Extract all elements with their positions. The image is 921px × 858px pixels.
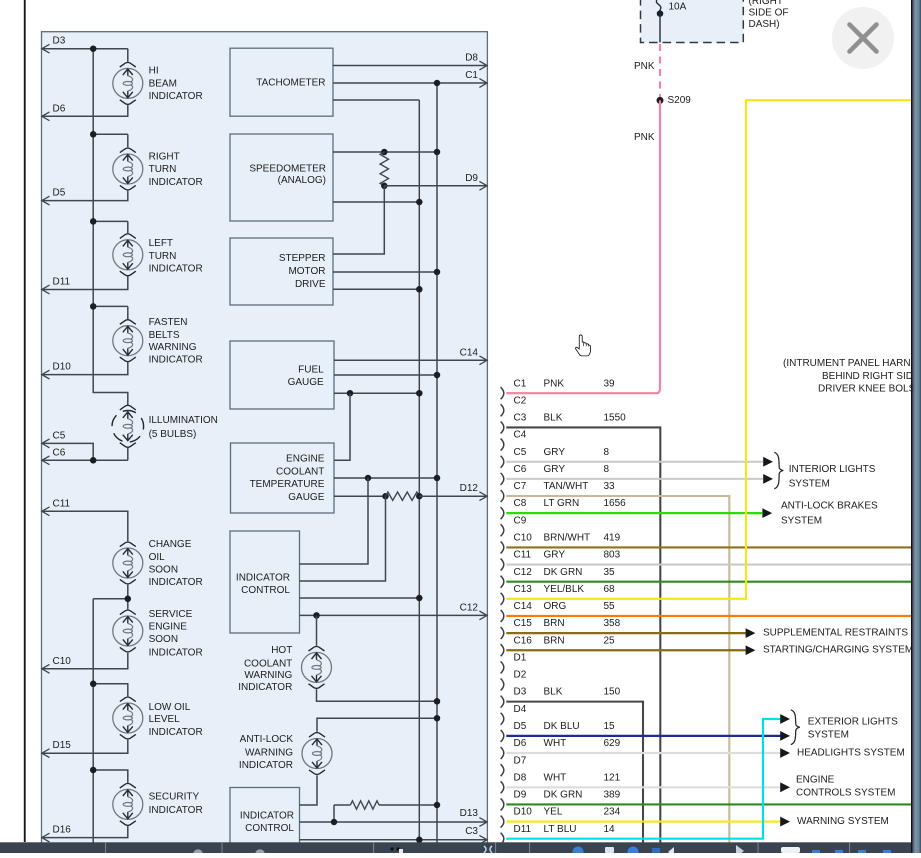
svg-text:INDICATOR: INDICATOR bbox=[238, 682, 292, 693]
wire CHANGE OIL bottom lead bbox=[127, 585, 129, 610]
svg-text:D6: D6 bbox=[53, 103, 66, 114]
svg-text:BELTS: BELTS bbox=[149, 330, 180, 341]
svg-text:STARTING/CHARGING SYSTEM: STARTING/CHARGING SYSTEM bbox=[763, 645, 913, 656]
svg-text:1550: 1550 bbox=[604, 413, 627, 424]
svg-text:D15: D15 bbox=[53, 740, 72, 751]
taskbar icon bbox=[193, 849, 203, 858]
svg-text:INDICATOR: INDICATOR bbox=[149, 648, 203, 659]
wire IC out1 bbox=[300, 478, 369, 564]
wire C12 row bbox=[300, 614, 488, 616]
wire C1 row bbox=[333, 82, 487, 84]
wire C14 row bbox=[334, 359, 487, 361]
lamp LEFT TURN INDICATOR bbox=[113, 234, 143, 276]
wire stepper mid bbox=[333, 271, 437, 273]
svg-text:OIL: OIL bbox=[149, 552, 166, 563]
wire anti-lock top lead bbox=[317, 718, 437, 732]
lamp SECURITY INDICATOR bbox=[113, 783, 143, 825]
wire SECURITY bottom lead / D16 row bbox=[42, 826, 128, 838]
svg-text:SYSTEM: SYSTEM bbox=[789, 478, 830, 489]
wire D9 row bbox=[384, 185, 487, 187]
wire D11 LT BLU bbox=[506, 719, 780, 839]
wire left bus bbox=[93, 49, 128, 405]
svg-text:D2: D2 bbox=[514, 670, 527, 681]
wire tach third bbox=[333, 99, 419, 101]
junction speedo/V2 bbox=[434, 149, 441, 156]
pin D10 connector bbox=[501, 807, 621, 828]
junction V2/C1 bbox=[434, 80, 441, 87]
wire D5 DK BLU bbox=[506, 735, 780, 737]
wire lamp 4 top lead bbox=[127, 306, 129, 319]
wire ECT upper bbox=[334, 477, 437, 479]
svg-text:YEL/BLK: YEL/BLK bbox=[544, 584, 585, 595]
wire lamp 1 bottom lead bbox=[42, 105, 128, 116]
lamp ILLUMINATION (5 bulbs) bbox=[112, 405, 144, 447]
svg-text:WARNING SYSTEM: WARNING SYSTEM bbox=[797, 816, 889, 827]
taskbar icon bbox=[652, 848, 660, 853]
svg-text:TEMPERATURE: TEMPERATURE bbox=[250, 479, 325, 490]
svg-text:CONTROL: CONTROL bbox=[245, 823, 294, 834]
svg-text:D1: D1 bbox=[514, 652, 527, 663]
taskbar icon bbox=[255, 849, 265, 858]
svg-text:(5 BULBS): (5 BULBS) bbox=[149, 429, 197, 440]
label ANTI-LOCK WARNING INDICATOR bbox=[239, 734, 293, 771]
wire lamp 2 bottom lead bbox=[42, 191, 128, 201]
svg-text:WARNING: WARNING bbox=[245, 748, 293, 759]
taskbar icon bbox=[484, 846, 492, 853]
junction antilock/V2 bbox=[434, 715, 441, 722]
pin C1 arrow bbox=[479, 79, 487, 88]
junction fuel/V2 bbox=[434, 372, 441, 379]
arrow to interior lights (C5) bbox=[763, 457, 773, 467]
arrow to warning system bbox=[780, 817, 790, 827]
wire C3 BLK bbox=[506, 427, 660, 842]
svg-text:ILLUMINATION: ILLUMINATION bbox=[149, 415, 218, 426]
wire fuel to ECT bbox=[335, 393, 351, 460]
svg-text:D10: D10 bbox=[53, 362, 72, 373]
svg-text:14: 14 bbox=[604, 824, 616, 835]
junction C5/C6 bbox=[90, 457, 97, 464]
pin D1 connector bbox=[501, 652, 527, 673]
svg-text:HOT: HOT bbox=[271, 645, 292, 656]
svg-text:D8: D8 bbox=[514, 772, 527, 783]
svg-text:SYSTEM: SYSTEM bbox=[781, 516, 822, 527]
svg-text:C9: C9 bbox=[514, 515, 527, 526]
pin C13 connector bbox=[501, 584, 615, 605]
svg-text:C5: C5 bbox=[514, 447, 527, 458]
wire C16 BRN bbox=[506, 649, 746, 651]
pin C12 connector bbox=[501, 567, 615, 588]
svg-text:LOW OIL: LOW OIL bbox=[149, 702, 191, 713]
label HOT COOLANT WARNING INDICATOR bbox=[238, 645, 292, 693]
wire speedometer upper bbox=[333, 151, 437, 153]
pin C7 connector bbox=[501, 481, 615, 502]
svg-text:629: 629 bbox=[604, 738, 621, 749]
wire D13 row bbox=[300, 821, 488, 823]
pin D3 arrow bbox=[42, 44, 50, 53]
svg-text:DK GRN: DK GRN bbox=[544, 790, 583, 801]
wire D6 WHT bbox=[506, 752, 780, 754]
wire D9 DK GRN bbox=[506, 803, 911, 805]
wire security row feed bbox=[93, 770, 128, 783]
arrow to exterior lights (D11) bbox=[780, 714, 790, 724]
junction hot-coolant tap bbox=[313, 612, 320, 619]
svg-text:D3: D3 bbox=[53, 36, 66, 47]
wire SERVICE bottom lead / C10 row bbox=[42, 653, 128, 669]
taskbar icon bbox=[835, 850, 843, 853]
svg-text:INDICATOR: INDICATOR bbox=[149, 577, 203, 588]
pin D5 connector bbox=[501, 721, 615, 742]
taskbar icon bbox=[668, 847, 674, 857]
svg-text:D6: D6 bbox=[514, 738, 527, 749]
wire C12 DK GRN bbox=[506, 581, 911, 583]
resistor R3 bbox=[350, 801, 379, 809]
wire C11 GRY bbox=[506, 563, 911, 565]
svg-text:D5: D5 bbox=[514, 721, 527, 732]
svg-text:DASH): DASH) bbox=[749, 19, 780, 30]
wire fuse lead bbox=[659, 14, 661, 43]
svg-text:GRY: GRY bbox=[544, 464, 566, 475]
svg-text:D12: D12 bbox=[460, 483, 479, 494]
arrow to headlights bbox=[780, 748, 790, 758]
wire PNK solid to C1 bbox=[506, 100, 660, 393]
svg-text:C12: C12 bbox=[460, 602, 479, 613]
pin C2 connector bbox=[501, 395, 527, 416]
label ANTI-LOCK BRAKES SYSTEM bbox=[781, 500, 878, 526]
svg-text:C14: C14 bbox=[514, 601, 533, 612]
taskbar separator bbox=[529, 842, 530, 853]
label lamp 3 text bbox=[149, 238, 203, 274]
instrument cluster panel bbox=[42, 32, 488, 853]
svg-text:389: 389 bbox=[604, 790, 621, 801]
pin C4 connector bbox=[501, 430, 527, 451]
svg-text:HI: HI bbox=[149, 66, 159, 77]
junction R3/V2 bbox=[434, 802, 441, 809]
svg-text:WARNING: WARNING bbox=[149, 342, 197, 353]
svg-text:GAUGE: GAUGE bbox=[288, 492, 324, 503]
svg-text:ORG: ORG bbox=[544, 601, 567, 612]
label LOW OIL LEVEL INDICATOR bbox=[149, 702, 203, 738]
pin C14 arrow bbox=[479, 356, 487, 365]
svg-text:C5: C5 bbox=[53, 431, 66, 442]
taskbar icon bbox=[883, 850, 891, 853]
pin C11 arrow bbox=[42, 507, 50, 516]
taskbar separator bbox=[495, 842, 496, 853]
pin D16 arrow bbox=[42, 833, 50, 842]
svg-text:SYSTEM: SYSTEM bbox=[808, 729, 849, 740]
svg-text:C6: C6 bbox=[53, 448, 66, 459]
svg-text:C6: C6 bbox=[514, 464, 527, 475]
label ILLUMINATION bbox=[149, 415, 218, 440]
svg-text:INDICATOR: INDICATOR bbox=[149, 263, 203, 274]
fuse F1 10A bbox=[656, 0, 686, 17]
pin D8 connector bbox=[501, 772, 621, 793]
svg-text:D3: D3 bbox=[514, 687, 527, 698]
pin D9 connector bbox=[501, 790, 621, 811]
svg-text:LEFT: LEFT bbox=[149, 238, 173, 249]
svg-text:C15: C15 bbox=[514, 618, 533, 629]
wire lamp 4 bottom lead bbox=[42, 362, 128, 374]
pin C3 connector bbox=[501, 413, 627, 434]
close button bbox=[832, 7, 894, 69]
wire D12 row left bbox=[334, 495, 386, 497]
junction C3/V1 bbox=[416, 837, 423, 844]
wire stepper low bbox=[333, 288, 419, 290]
svg-text:25: 25 bbox=[604, 635, 616, 646]
pin D15 arrow bbox=[42, 749, 50, 758]
wire lamp 2 top lead bbox=[127, 134, 129, 147]
taskbar icon bbox=[573, 847, 584, 858]
wire R3 drop bbox=[333, 805, 335, 822]
wire lamp 1 top lead bbox=[127, 49, 129, 62]
svg-text:BRN: BRN bbox=[544, 635, 565, 646]
svg-text:CHANGE: CHANGE bbox=[149, 539, 192, 550]
svg-text:INDICATOR: INDICATOR bbox=[149, 177, 203, 188]
svg-text:C11: C11 bbox=[53, 498, 71, 509]
arrow to engine controls bbox=[780, 782, 790, 792]
svg-text:GAUGE: GAUGE bbox=[288, 377, 324, 388]
svg-text:STEPPER: STEPPER bbox=[279, 253, 326, 264]
wire C15 BRN bbox=[506, 632, 746, 634]
wire row 2 feed bbox=[93, 133, 128, 135]
svg-text:C13: C13 bbox=[514, 584, 533, 595]
svg-text:LT BLU: LT BLU bbox=[544, 824, 577, 835]
junction stepper/V1 bbox=[416, 286, 423, 293]
taskbar separator bbox=[373, 842, 374, 853]
pin D10 arrow bbox=[42, 370, 50, 379]
label (RIGHT SIDE OF DASH) bbox=[749, 0, 789, 30]
svg-text:S209: S209 bbox=[668, 95, 692, 106]
pin D4 connector bbox=[501, 704, 527, 725]
svg-text:INDICATOR: INDICATOR bbox=[236, 572, 290, 583]
svg-text:BEAM: BEAM bbox=[149, 78, 177, 89]
svg-text:BLK: BLK bbox=[544, 687, 563, 698]
pin D7 connector bbox=[501, 755, 527, 776]
pin D2 connector bbox=[501, 670, 527, 691]
svg-text:SECURITY: SECURITY bbox=[149, 792, 200, 803]
svg-text:WHT: WHT bbox=[544, 772, 567, 783]
lamp HI BEAM INDICATOR bbox=[113, 62, 143, 104]
junction IC3/V1 bbox=[416, 595, 423, 602]
svg-text:CONTROLS SYSTEM: CONTROLS SYSTEM bbox=[796, 787, 895, 798]
wire hot coolant bottom lead bbox=[317, 689, 438, 701]
svg-text:TACHOMETER: TACHOMETER bbox=[256, 78, 325, 89]
svg-text:LEVEL: LEVEL bbox=[149, 714, 181, 725]
lamp SERVICE ENGINE SOON INDICATOR bbox=[113, 610, 143, 652]
taskbar icon bbox=[781, 847, 800, 853]
wire vertical V1 bbox=[418, 100, 420, 843]
junction D13/334 bbox=[331, 819, 338, 826]
svg-text:WHT: WHT bbox=[544, 738, 567, 749]
wire IC out2 bbox=[300, 496, 386, 581]
TACHOMETER box bbox=[230, 48, 333, 116]
junction resistor bottom bbox=[381, 183, 388, 190]
svg-text:GRY: GRY bbox=[544, 447, 566, 458]
junction row 2 bbox=[90, 131, 97, 138]
pin C6 arrow bbox=[42, 456, 50, 465]
label lamp 1 text bbox=[149, 66, 203, 102]
svg-text:BEHIND RIGHT SID: BEHIND RIGHT SID bbox=[822, 371, 913, 382]
svg-text:INDICATOR: INDICATOR bbox=[149, 354, 203, 365]
pin C1 connector bbox=[501, 378, 615, 399]
INDICATOR CONTROL box U1 bbox=[230, 531, 300, 633]
cursor hand pointer bbox=[576, 335, 591, 356]
lamp ANTI-LOCK WARNING INDICATOR bbox=[302, 733, 332, 775]
pin C8 connector bbox=[501, 498, 627, 519]
wire C6 GRY bbox=[506, 478, 763, 480]
svg-text:1656: 1656 bbox=[604, 498, 627, 509]
taskbar icon bbox=[390, 847, 403, 853]
FUEL GAUGE box bbox=[230, 341, 334, 409]
wire D8 WHT bbox=[506, 786, 780, 788]
junction service row bbox=[125, 596, 132, 603]
ENGINE COOLANT TEMPERATURE GAUGE box bbox=[231, 443, 335, 513]
wire C11 row bbox=[42, 511, 128, 541]
svg-text:D9: D9 bbox=[514, 790, 527, 801]
wire lamp 3 top lead bbox=[127, 221, 129, 233]
pin C9 connector bbox=[501, 515, 527, 536]
svg-text:55: 55 bbox=[604, 601, 616, 612]
svg-text:DRIVE: DRIVE bbox=[295, 279, 326, 290]
svg-text:SERVICE: SERVICE bbox=[149, 609, 193, 620]
arrow to anti-lock brakes bbox=[762, 508, 772, 518]
wire row 3 feed bbox=[93, 220, 128, 222]
svg-text:D8: D8 bbox=[465, 53, 478, 64]
arrow to supplemental restraints bbox=[746, 628, 756, 638]
wire PNK dashed bbox=[659, 44, 661, 98]
junction row 4 bbox=[90, 303, 97, 310]
junction ECT/V2 bbox=[434, 475, 441, 482]
junction fuel low left bbox=[347, 390, 354, 397]
wire lamp 3 bottom lead bbox=[42, 277, 128, 290]
SPEEDOMETER box bbox=[230, 134, 333, 221]
svg-text:COOLANT: COOLANT bbox=[244, 658, 292, 669]
pin C5 arrow bbox=[42, 439, 50, 448]
svg-text:INDICATOR: INDICATOR bbox=[149, 805, 203, 816]
svg-text:BLK: BLK bbox=[544, 413, 563, 424]
svg-text:D4: D4 bbox=[514, 704, 527, 715]
wire D8 row bbox=[333, 65, 487, 67]
pin C16 connector bbox=[501, 635, 615, 656]
svg-text:C16: C16 bbox=[514, 635, 533, 646]
wire left bus lower bbox=[92, 599, 94, 843]
wire fuel mid bbox=[334, 374, 437, 376]
svg-text:C2: C2 bbox=[514, 395, 527, 406]
svg-text:YEL: YEL bbox=[544, 807, 563, 818]
svg-text:C4: C4 bbox=[514, 430, 527, 441]
svg-text:15: 15 bbox=[604, 721, 616, 732]
lamp RIGHT TURN INDICATOR bbox=[113, 148, 143, 190]
wire service row feed bbox=[93, 598, 128, 600]
wire low-oil row feed bbox=[93, 684, 128, 697]
svg-text:D11: D11 bbox=[514, 824, 532, 835]
lamp CHANGE OIL SOON INDICATOR bbox=[113, 542, 143, 584]
svg-text:C3: C3 bbox=[465, 826, 478, 837]
svg-text:358: 358 bbox=[604, 618, 621, 629]
svg-text:RIGHT: RIGHT bbox=[149, 152, 180, 163]
junction row 1 bbox=[90, 45, 97, 52]
resistor R2 bbox=[386, 492, 420, 500]
label ENGINE CONTROLS SYSTEM bbox=[796, 774, 895, 798]
arrow to exterior lights (D5) bbox=[780, 731, 790, 741]
pin C10 connector bbox=[501, 533, 621, 554]
pin C14 connector bbox=[501, 601, 615, 622]
svg-text:D9: D9 bbox=[465, 173, 478, 184]
junction ECT/368 bbox=[365, 475, 372, 482]
wire C7 TAN/WHT bbox=[506, 496, 729, 842]
wire row 4 feed bbox=[93, 305, 128, 307]
svg-text:BRN/WHT: BRN/WHT bbox=[544, 533, 591, 544]
taskbar separator bbox=[105, 842, 106, 853]
svg-text:INTERIOR LIGHTS: INTERIOR LIGHTS bbox=[789, 464, 876, 475]
wire D3 row bbox=[42, 48, 128, 50]
svg-text:10A: 10A bbox=[669, 1, 687, 12]
junction low-oil row bbox=[90, 681, 97, 688]
wire hot coolant top lead bbox=[316, 615, 318, 645]
lamp FASTEN BELTS WARNING INDICATOR bbox=[113, 320, 143, 362]
svg-text:C11: C11 bbox=[514, 550, 532, 561]
junction hotcoolant/V2 bbox=[434, 698, 441, 705]
pin D5 arrow bbox=[42, 196, 50, 205]
junction R2 right bbox=[416, 493, 423, 500]
svg-text:DRIVER KNEE BOLS: DRIVER KNEE BOLS bbox=[818, 383, 916, 394]
svg-text:C3: C3 bbox=[514, 413, 527, 424]
pin D9 arrow bbox=[479, 181, 487, 190]
right window border bbox=[911, 0, 913, 853]
fuse box (dashed) bbox=[641, 0, 744, 43]
pin D11 connector bbox=[501, 824, 615, 845]
svg-text:SOON: SOON bbox=[149, 634, 178, 645]
wire resistor to stepper bbox=[333, 186, 384, 254]
pin C15 connector bbox=[501, 618, 621, 639]
pin D6 arrow bbox=[42, 112, 50, 121]
label CHANGE OIL SOON INDICATOR bbox=[149, 539, 203, 588]
svg-text:SOON: SOON bbox=[149, 565, 178, 576]
svg-text:803: 803 bbox=[604, 550, 621, 561]
svg-text:D7: D7 bbox=[514, 755, 527, 766]
wire C6 row bbox=[42, 459, 128, 461]
svg-text:(ANALOG): (ANALOG) bbox=[278, 175, 326, 186]
svg-text:ANTI-LOCK BRAKES: ANTI-LOCK BRAKES bbox=[781, 500, 878, 511]
pin C10 arrow bbox=[42, 664, 50, 673]
svg-text:HEADLIGHTS SYSTEM: HEADLIGHTS SYSTEM bbox=[797, 748, 905, 759]
svg-text:DK GRN: DK GRN bbox=[544, 567, 583, 578]
wire fuel low bbox=[334, 392, 419, 394]
svg-text:EXTERIOR LIGHTS: EXTERIOR LIGHTS bbox=[808, 716, 898, 727]
svg-text:D16: D16 bbox=[53, 825, 72, 836]
junction R2 left bbox=[382, 493, 389, 500]
wire speedometer lower bbox=[333, 201, 419, 203]
pin D8 arrow bbox=[479, 61, 487, 70]
wire ILLUMINATION bottom lead bbox=[127, 448, 129, 460]
svg-text:ENGINE: ENGINE bbox=[796, 774, 835, 785]
junction row 3 bbox=[90, 218, 97, 225]
svg-text:MOTOR: MOTOR bbox=[288, 266, 325, 277]
svg-text:SUPPLEMENTAL RESTRAINTS: SUPPLEMENTAL RESTRAINTS bbox=[763, 628, 908, 639]
svg-text:TURN: TURN bbox=[149, 164, 177, 175]
wire LOW OIL bottom lead / D15 row bbox=[42, 740, 128, 754]
svg-text:SPEEDOMETER: SPEEDOMETER bbox=[249, 164, 326, 175]
svg-text:D5: D5 bbox=[53, 188, 66, 199]
junction resistor top bbox=[381, 149, 388, 156]
svg-text:8: 8 bbox=[604, 447, 610, 458]
svg-text:C7: C7 bbox=[514, 481, 527, 492]
svg-text:D10: D10 bbox=[514, 807, 533, 818]
junction security row bbox=[90, 767, 97, 774]
svg-text:SIDE OF: SIDE OF bbox=[749, 8, 789, 19]
wire anti-lock bottom lead bbox=[300, 775, 318, 805]
svg-text:150: 150 bbox=[604, 687, 621, 698]
wire D10 YEL bbox=[506, 820, 780, 822]
